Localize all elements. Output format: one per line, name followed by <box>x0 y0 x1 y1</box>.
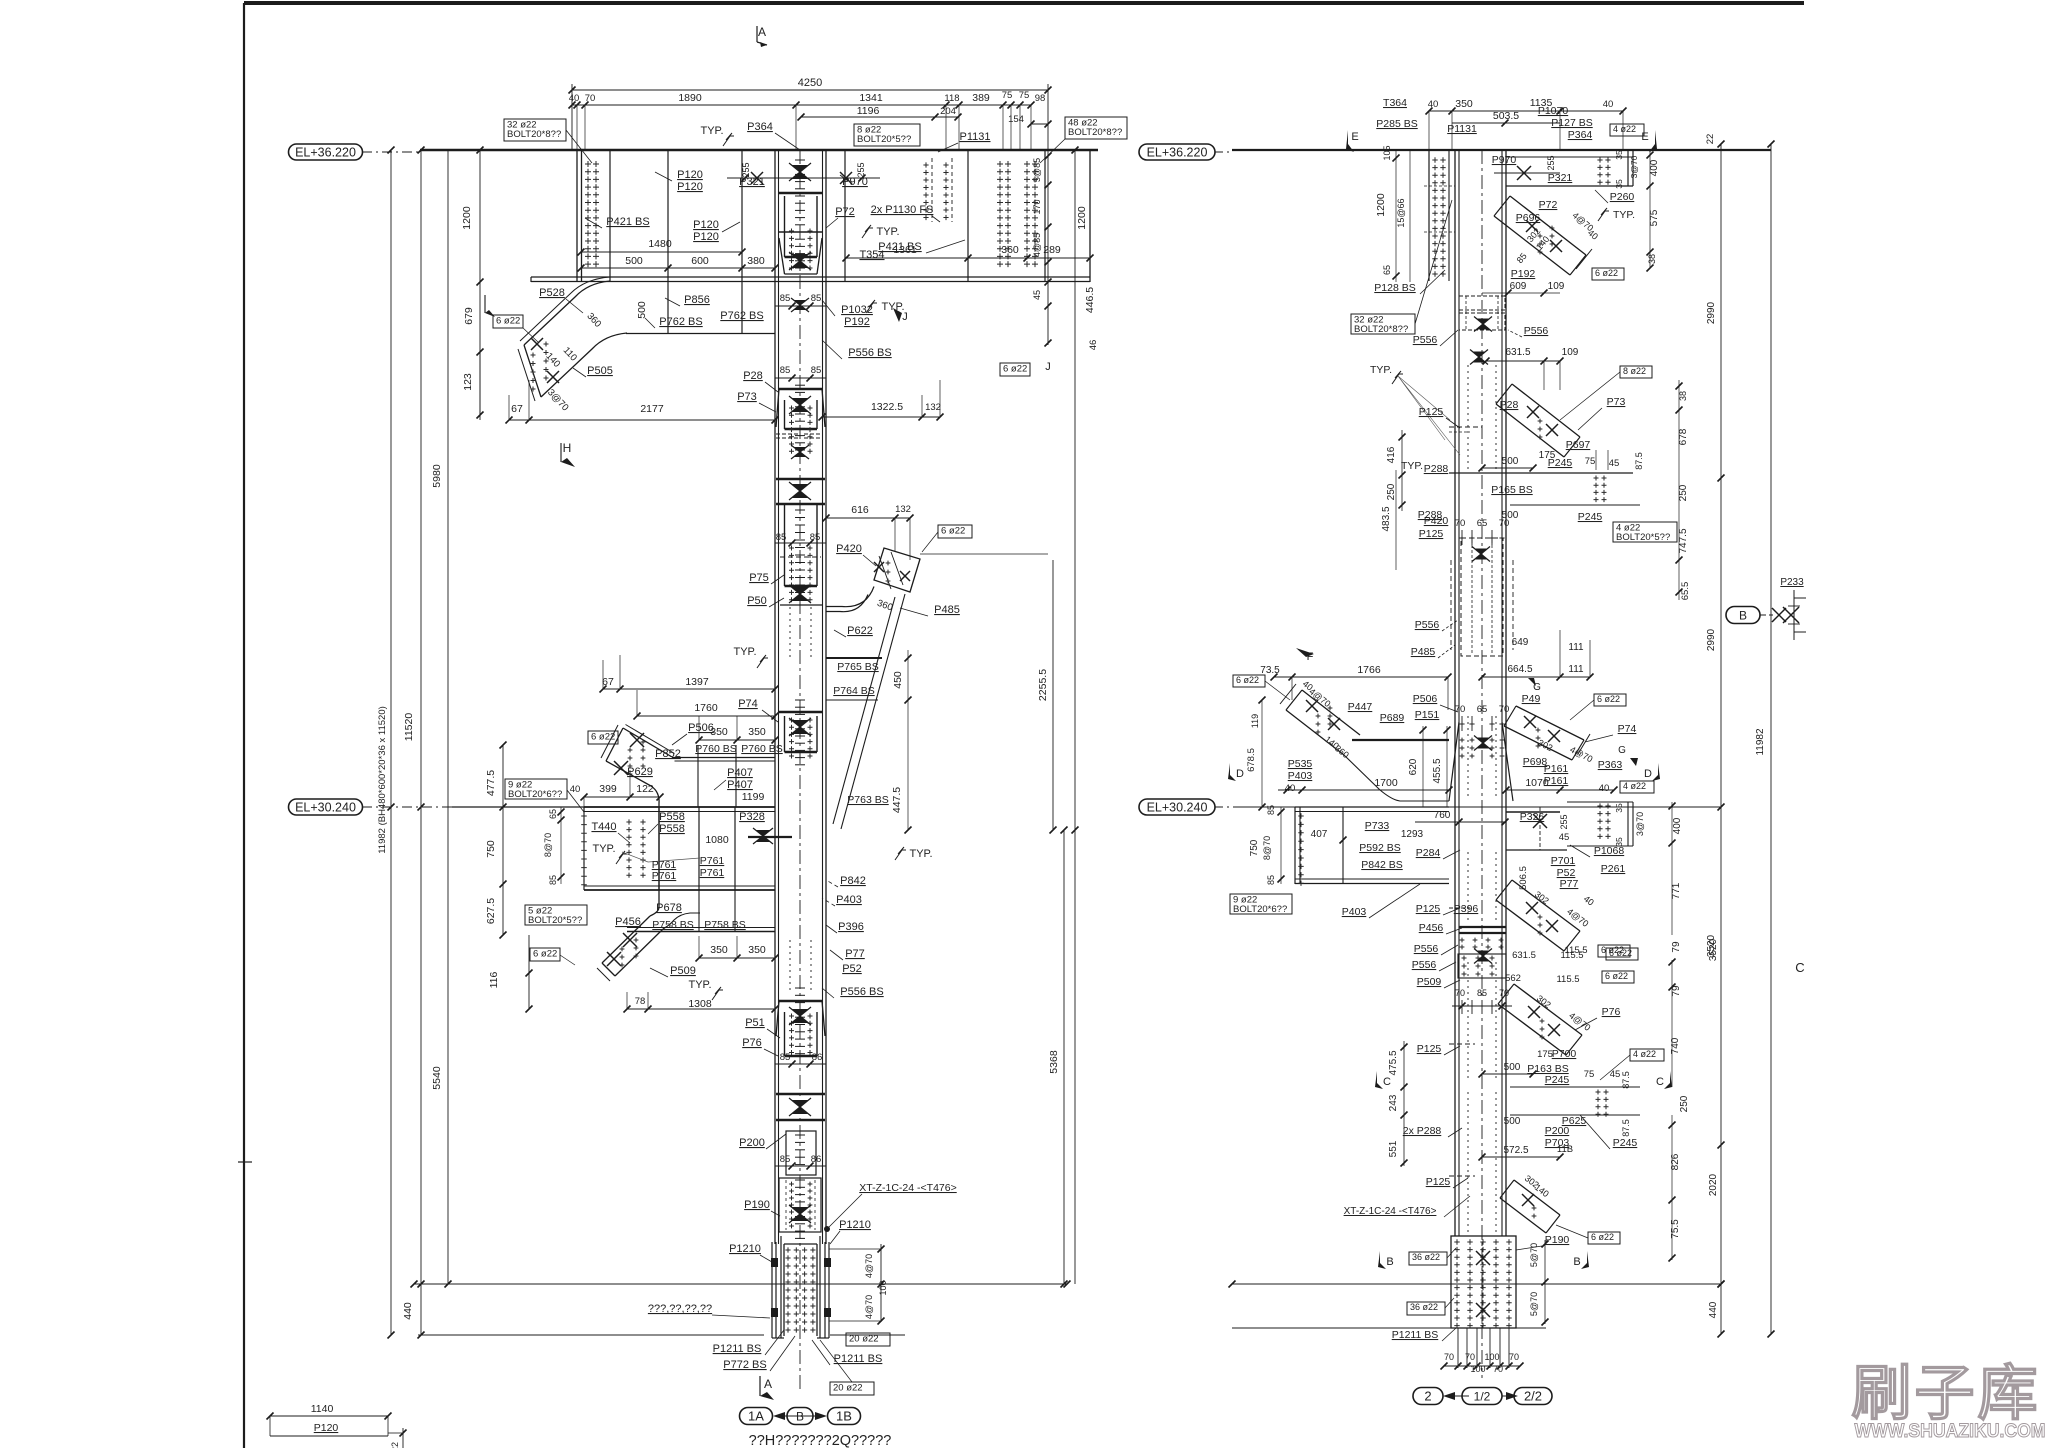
svg-text:440: 440 <box>1708 1301 1719 1318</box>
svg-text:116: 116 <box>488 971 500 988</box>
bolt note 8ø22 <box>854 124 920 146</box>
svg-text:P127 BS: P127 BS <box>1551 117 1592 129</box>
svg-text:BOLT20*8??: BOLT20*8?? <box>1354 324 1408 335</box>
centerline bowtie below bracket P28 <box>794 447 806 457</box>
svg-text:1200: 1200 <box>1375 193 1387 217</box>
svg-text:45: 45 <box>1609 458 1620 469</box>
svg-text:11B: 11B <box>1557 1144 1573 1155</box>
right view: EL+30.240 bubble <box>1139 799 1215 815</box>
svg-text:79: 79 <box>1671 941 1682 953</box>
heavy line brace3 to column <box>1352 739 1449 741</box>
dims 1700 1070 40 40 <box>1302 789 1449 791</box>
svg-text:4@70: 4@70 <box>864 1295 874 1319</box>
svg-text:87.5: 87.5 <box>1621 1071 1631 1089</box>
svg-text:85: 85 <box>811 365 822 376</box>
svg-text:6 ø22: 6 ø22 <box>533 949 557 960</box>
svg-text:P72: P72 <box>835 206 855 218</box>
left view column right flange lines <box>822 150 824 1244</box>
bottom splice black squares <box>771 1258 778 1267</box>
svg-text:TYP.: TYP. <box>876 226 899 238</box>
section mark A top <box>756 26 758 42</box>
svg-text:C: C <box>1656 1076 1664 1088</box>
top beam stiffener x742 <box>741 150 743 282</box>
beam flange lines mid right <box>1449 472 1633 474</box>
svg-text:P151: P151 <box>1415 709 1440 721</box>
bottom left corner details <box>270 1415 388 1417</box>
svg-text:85: 85 <box>1266 805 1276 815</box>
svg-text:P192: P192 <box>1511 268 1536 280</box>
labels 36ø22 x2 <box>1409 1252 1447 1265</box>
svg-text:P161: P161 <box>1544 775 1569 787</box>
svg-text:TYP.: TYP. <box>1613 209 1635 221</box>
svg-text:85: 85 <box>780 365 791 376</box>
svg-text:4 ø22: 4 ø22 <box>1623 781 1646 791</box>
mid brace lower curve to vertical stiffener <box>651 786 659 807</box>
svg-text:747.5: 747.5 <box>1678 528 1689 553</box>
svg-text:P772 BS: P772 BS <box>723 1359 766 1371</box>
svg-text:70: 70 <box>1499 518 1510 529</box>
svg-text:649: 649 <box>1512 637 1529 648</box>
column plate P190 with bolts <box>779 1178 821 1232</box>
svg-text:45: 45 <box>1032 290 1042 300</box>
svg-text:36 ø22: 36 ø22 <box>1410 1302 1438 1312</box>
svg-text:407: 407 <box>1311 829 1328 840</box>
svg-text:P403: P403 <box>1288 770 1313 782</box>
svg-text:6 ø22: 6 ø22 <box>1595 268 1618 278</box>
svg-text:P456: P456 <box>1419 922 1444 934</box>
brace curve into column <box>826 587 874 607</box>
svg-text:1397: 1397 <box>685 676 709 688</box>
top beam stiffener x845 <box>844 150 846 282</box>
svg-text:65: 65 <box>1477 518 1488 529</box>
svg-text:T364: T364 <box>1383 97 1407 109</box>
svg-text:P190: P190 <box>744 1199 770 1211</box>
svg-text:250: 250 <box>1679 1095 1690 1112</box>
left view: left dim chain x503 (477.5/750) <box>502 745 504 935</box>
svg-text:1140: 1140 <box>311 1403 334 1415</box>
column transition funnel <box>1449 722 1459 801</box>
svg-text:TYP.: TYP. <box>909 848 932 860</box>
bolt note 9ø22 <box>505 779 567 799</box>
svg-text:109: 109 <box>1562 347 1579 358</box>
svg-text:BOLT20*8??: BOLT20*8?? <box>1068 127 1122 138</box>
svg-text:??H???????2Q?????: ??H???????2Q????? <box>749 1433 892 1448</box>
svg-text:BOLT20*5??: BOLT20*5?? <box>528 915 582 926</box>
svg-text:5@85: 5@85 <box>1032 158 1042 182</box>
left chain dims 416 250 <box>1401 430 1403 511</box>
svg-text:J: J <box>902 311 908 323</box>
svg-text:1B: 1B <box>836 1409 852 1424</box>
left view right dim chain 5368 <box>1063 830 1065 1284</box>
svg-text:P73: P73 <box>737 391 757 403</box>
svg-text:P161: P161 <box>1544 763 1569 775</box>
svg-text:EL+36.220: EL+36.220 <box>1147 146 1208 160</box>
svg-text:75: 75 <box>1019 90 1030 101</box>
svg-text:P364: P364 <box>747 121 773 133</box>
right view top beam stub <box>1506 156 1633 158</box>
bolt cluster box below <box>1458 954 1506 978</box>
svg-text:T354: T354 <box>859 249 884 261</box>
svg-text:70: 70 <box>1493 1364 1503 1374</box>
svg-text:TYP.: TYP. <box>1370 364 1392 376</box>
top beam stiffener x1045 <box>1044 150 1046 282</box>
svg-text:75: 75 <box>1584 1069 1595 1080</box>
svg-text:D: D <box>1644 768 1652 780</box>
svg-text:562: 562 <box>1505 973 1521 984</box>
right view column centerline <box>1481 150 1483 1378</box>
svg-text:20 ø22: 20 ø22 <box>833 1383 863 1394</box>
svg-text:111: 111 <box>1568 642 1584 653</box>
svg-text:760: 760 <box>1434 810 1451 821</box>
svg-text:2x P1130 FS: 2x P1130 FS <box>871 204 934 216</box>
column bracket P51/P76 <box>779 1000 822 1003</box>
svg-text:503.5: 503.5 <box>1493 110 1519 122</box>
svg-text:P456: P456 <box>615 916 641 928</box>
svg-text:98: 98 <box>1035 93 1046 104</box>
svg-text:22: 22 <box>1705 134 1716 145</box>
svg-text:85: 85 <box>810 532 821 543</box>
mid brace X and bolts <box>630 733 644 747</box>
svg-text:500: 500 <box>1502 456 1519 467</box>
svg-text:100: 100 <box>878 1280 888 1295</box>
svg-text:P592 BS: P592 BS <box>1359 842 1400 854</box>
dim 4250 left view <box>572 89 1048 91</box>
svg-text:38: 38 <box>1678 391 1688 401</box>
left top diagonal brace P528/P505 upper edge with curve <box>524 281 610 345</box>
left column hidden bolt dotted lines <box>789 607 791 660</box>
svg-text:389: 389 <box>972 92 990 104</box>
svg-text:P192: P192 <box>844 316 870 328</box>
mid brace lower edge <box>606 761 651 786</box>
svg-text:TYP.: TYP. <box>688 979 711 991</box>
bolt note 20ø22 x2 <box>846 1333 890 1346</box>
svg-text:P701: P701 <box>1551 855 1576 867</box>
svg-text:400: 400 <box>1649 159 1660 176</box>
svg-text:620: 620 <box>1408 758 1419 775</box>
svg-text:6 ø22: 6 ø22 <box>1236 675 1259 685</box>
svg-text:P165 BS: P165 BS <box>1491 484 1532 496</box>
svg-text:551: 551 <box>1388 1140 1399 1157</box>
svg-text:P1070: P1070 <box>1538 105 1569 117</box>
right brace 7 small <box>1514 1180 1560 1215</box>
svg-text:P556: P556 <box>1524 325 1549 337</box>
svg-text:P260: P260 <box>1610 191 1635 203</box>
svg-text:11982 (BH480*600*20*36 x 11520: 11982 (BH480*600*20*36 x 11520) <box>377 706 388 854</box>
svg-text:85: 85 <box>776 532 787 543</box>
svg-text:70: 70 <box>1465 1352 1475 1362</box>
column bottom splice assembly <box>771 1242 773 1338</box>
dashed web lines right of strip <box>1458 162 1460 276</box>
svg-text:243: 243 <box>1388 1094 1399 1111</box>
svg-text:20 ø22: 20 ø22 <box>849 1334 879 1345</box>
svg-text:399: 399 <box>599 783 617 795</box>
svg-text:P758 BS: P758 BS <box>652 919 693 931</box>
svg-text:1890: 1890 <box>678 92 702 104</box>
left view right ext x1075 <box>1074 150 1076 1284</box>
svg-text:TYP.: TYP. <box>700 125 723 137</box>
left view: EL+30.240 level line <box>452 806 775 808</box>
svg-text:P328: P328 <box>739 811 765 823</box>
svg-text:P245: P245 <box>1548 457 1573 469</box>
svg-text:447.5: 447.5 <box>891 787 903 813</box>
svg-text:1341: 1341 <box>859 92 883 104</box>
right stub at EL <box>1567 801 1633 803</box>
right view top-left bolt strip <box>1428 150 1430 281</box>
svg-text:???,??,??,??: ???,??,??,?? <box>648 1303 712 1315</box>
svg-text:P447: P447 <box>1348 701 1373 713</box>
svg-text:1199: 1199 <box>742 791 765 803</box>
left chain 475.5 243 551 <box>1403 1041 1405 1166</box>
svg-text:40: 40 <box>570 784 581 795</box>
svg-text:P1211 BS: P1211 BS <box>1392 1329 1439 1341</box>
bottom bubbles 1A B 1B <box>740 1408 773 1425</box>
svg-text:TYP.: TYP. <box>881 301 904 313</box>
svg-text:P120: P120 <box>314 1422 339 1434</box>
brace3 labels <box>1233 675 1265 687</box>
svg-text:46: 46 <box>1088 340 1099 351</box>
svg-text:P528: P528 <box>539 287 565 299</box>
svg-text:P321: P321 <box>1548 172 1573 184</box>
svg-text:P363: P363 <box>1598 759 1623 771</box>
svg-text:4@85: 4@85 <box>1032 233 1042 257</box>
svg-text:1196: 1196 <box>857 105 880 117</box>
brace bolts and X marks <box>531 338 543 350</box>
svg-text:P245: P245 <box>1613 1137 1638 1149</box>
svg-text:P74: P74 <box>738 698 758 710</box>
svg-text:P288: P288 <box>1424 463 1449 475</box>
svg-text:P200: P200 <box>739 1137 765 1149</box>
svg-text:500: 500 <box>636 301 648 319</box>
svg-text:P125: P125 <box>1419 406 1444 418</box>
left view: left dim chain x529 lower <box>528 935 530 1009</box>
right brace 5 below EL <box>1512 880 1580 931</box>
svg-text:A: A <box>764 1377 772 1391</box>
mid beam inner bolts <box>626 819 631 824</box>
svg-text:P120: P120 <box>693 219 719 231</box>
svg-text:170: 170 <box>1032 199 1042 214</box>
svg-text:87.5: 87.5 <box>1634 452 1644 470</box>
svg-text:P760 BS: P760 BS <box>741 743 782 755</box>
svg-text:P77: P77 <box>1560 878 1579 890</box>
svg-text:P125: P125 <box>1419 528 1444 540</box>
mid beam panel above EL (P760) <box>697 745 699 807</box>
svg-text:P558: P558 <box>659 811 685 823</box>
svg-text:35: 35 <box>1614 150 1624 160</box>
svg-text:P1210: P1210 <box>729 1243 761 1255</box>
svg-text:P505: P505 <box>587 365 613 377</box>
svg-text:65: 65 <box>1477 704 1488 715</box>
svg-text:WWW.SHUAZIKU.COM: WWW.SHUAZIKU.COM <box>1855 1421 2046 1442</box>
svg-text:G: G <box>1618 745 1626 756</box>
svg-text:P1131: P1131 <box>960 131 991 143</box>
svg-text:255: 255 <box>1546 155 1556 170</box>
svg-text:P75: P75 <box>749 572 769 584</box>
svg-text:6 ø22: 6 ø22 <box>1597 694 1620 704</box>
svg-text:P485: P485 <box>1411 646 1436 658</box>
steep diagonal brace P420/P485 end plate <box>874 548 920 592</box>
svg-text:P842 BS: P842 BS <box>1361 859 1402 871</box>
right view: EL+36.220 line <box>1232 149 1771 151</box>
svg-text:1480: 1480 <box>648 238 672 250</box>
right column hidden bolt dotted lines <box>1467 365 1469 470</box>
svg-text:P403: P403 <box>836 894 862 906</box>
svg-text:40: 40 <box>1285 783 1296 794</box>
svg-text:255: 255 <box>741 162 751 177</box>
svg-text:678: 678 <box>1678 428 1689 445</box>
right brace 2 down-right <box>1512 384 1580 437</box>
svg-text:P506: P506 <box>688 722 714 734</box>
right EL beam left stub <box>1295 806 1449 808</box>
mid brace P852/P506 upper edge <box>623 728 672 757</box>
svg-text:5368: 5368 <box>1048 1050 1060 1074</box>
dim line y1009 <box>627 1008 775 1010</box>
svg-text:P761: P761 <box>652 870 677 882</box>
bottom frame line y1284 <box>414 1283 1067 1285</box>
svg-text:P51: P51 <box>745 1017 765 1029</box>
svg-text:35: 35 <box>1614 803 1624 813</box>
svg-text:350: 350 <box>748 726 766 738</box>
svg-text:2/2: 2/2 <box>1524 1389 1542 1404</box>
svg-text:BOLT20*6??: BOLT20*6?? <box>1233 904 1287 915</box>
svg-text:45: 45 <box>1559 832 1570 843</box>
svg-text:255: 255 <box>1559 814 1569 829</box>
svg-text:750: 750 <box>485 840 497 858</box>
svg-text:40: 40 <box>1603 99 1614 110</box>
brace P420 steep lines to EL joint <box>841 594 905 829</box>
svg-text:P76: P76 <box>742 1037 762 1049</box>
svg-text:P558: P558 <box>659 823 685 835</box>
column joint at EL right view <box>1506 811 1560 813</box>
svg-text:11520: 11520 <box>403 713 415 742</box>
svg-text:40: 40 <box>1599 783 1610 794</box>
svg-text:B: B <box>1386 1256 1393 1268</box>
svg-text:1308: 1308 <box>688 998 712 1010</box>
svg-text:P245: P245 <box>1545 1074 1570 1086</box>
svg-text:E: E <box>1641 131 1648 143</box>
svg-text:P856: P856 <box>684 294 710 306</box>
svg-text:6 ø22: 6 ø22 <box>591 732 615 743</box>
svg-text:100: 100 <box>1484 1352 1499 1362</box>
svg-text:11982: 11982 <box>1755 728 1766 756</box>
bolt note 32ø22 <box>504 119 566 141</box>
svg-text:111: 111 <box>1568 664 1584 675</box>
svg-text:P765 BS: P765 BS <box>837 661 878 673</box>
svg-text:446.5: 446.5 <box>1084 287 1096 313</box>
left view: EL+30.240 level bubble <box>289 799 363 815</box>
svg-text:P758 BS: P758 BS <box>704 919 745 931</box>
svg-text:289: 289 <box>1043 244 1061 256</box>
right view top dim row <box>1429 110 1623 112</box>
right brace 4 at EL <box>1516 706 1584 740</box>
svg-text:6 ø22: 6 ø22 <box>1605 971 1628 981</box>
svg-text:105: 105 <box>1382 145 1392 160</box>
svg-text:P74: P74 <box>1618 723 1637 735</box>
left view: EL+36.220 level bubble <box>289 144 363 160</box>
svg-text:P762 BS: P762 BS <box>720 310 763 322</box>
svg-text:5@70: 5@70 <box>1529 1243 1539 1267</box>
svg-text:2020: 2020 <box>1708 1173 1719 1196</box>
svg-text:122: 122 <box>636 783 654 795</box>
svg-text:78: 78 <box>635 996 646 1007</box>
svg-text:P764 BS: P764 BS <box>833 685 874 697</box>
far right overall 11982 <box>1770 144 1772 1334</box>
svg-text:22: 22 <box>390 1442 400 1448</box>
left view column left flange lines <box>774 150 776 1244</box>
dim 1766 73.5 664.5 111 <box>1292 676 1448 678</box>
B bubble right side <box>1726 607 1760 624</box>
bottom bolt tails <box>1457 1328 1459 1368</box>
svg-text:P535: P535 <box>1288 758 1313 770</box>
svg-text:1760: 1760 <box>694 702 718 714</box>
svg-text:3520: 3520 <box>1706 934 1717 957</box>
svg-text:J: J <box>1045 361 1051 373</box>
svg-text:BOLT20*5??: BOLT20*5?? <box>1616 532 1670 543</box>
label 6ø22 mid brace <box>588 731 618 744</box>
svg-text:P970: P970 <box>1492 154 1517 166</box>
svg-text:100: 100 <box>1470 1364 1485 1374</box>
dense bolt rows on column <box>1459 926 1506 928</box>
svg-text:450: 450 <box>892 671 904 689</box>
dim row 1196/204 <box>801 116 935 118</box>
svg-text:2990: 2990 <box>1706 301 1717 324</box>
svg-text:6 ø22: 6 ø22 <box>1591 1232 1614 1242</box>
svg-text:40: 40 <box>1428 99 1439 110</box>
svg-text:P125: P125 <box>1416 903 1441 915</box>
svg-text:5@70: 5@70 <box>1529 1292 1539 1316</box>
top beam dashed bolt lines 2x P1130 <box>931 158 933 222</box>
svg-text:4 ø22: 4 ø22 <box>1613 124 1636 134</box>
svg-text:8@70: 8@70 <box>1262 836 1272 860</box>
svg-text:EL+36.220: EL+36.220 <box>295 146 356 160</box>
svg-text:380: 380 <box>747 255 765 267</box>
svg-text:40: 40 <box>569 93 580 104</box>
column X-box panel 1 <box>776 478 825 480</box>
svg-text:500: 500 <box>625 255 643 267</box>
svg-text:3@70: 3@70 <box>1629 155 1639 178</box>
svg-text:P506: P506 <box>1413 693 1438 705</box>
svg-text:P763 BS: P763 BS <box>847 794 888 806</box>
brace P505 lower edge with curve <box>541 333 627 397</box>
svg-text:250: 250 <box>1678 484 1689 501</box>
svg-text:P762 BS: P762 BS <box>659 316 702 328</box>
top beam stiffener x668 <box>667 150 669 282</box>
svg-text:C: C <box>1383 1076 1391 1088</box>
svg-text:P420: P420 <box>1424 515 1449 527</box>
bolt note 4ø22 BOLT20 far right <box>1613 522 1677 542</box>
svg-text:75: 75 <box>1585 456 1596 467</box>
svg-text:P678: P678 <box>656 902 682 914</box>
watermark brush logo <box>1852 1360 2046 1442</box>
plate P764 line <box>826 699 878 701</box>
right brace 6 <box>1514 984 1582 1035</box>
svg-text:P50: P50 <box>747 595 767 607</box>
section mark A bottom <box>759 1376 761 1396</box>
svg-text:4 ø22: 4 ø22 <box>1633 1049 1656 1059</box>
splice dashes below bracket <box>776 433 798 435</box>
right view bottom plate <box>1451 1236 1516 1328</box>
secondary beam below top beam <box>626 333 775 335</box>
svg-text:85: 85 <box>1266 875 1276 885</box>
svg-text:123: 123 <box>462 373 474 391</box>
svg-text:P261: P261 <box>1601 863 1626 875</box>
svg-text:P52: P52 <box>842 963 862 975</box>
svg-text:D: D <box>1236 768 1244 780</box>
mid brace end cap <box>606 728 623 761</box>
svg-text:P233: P233 <box>1780 577 1804 588</box>
svg-text:C: C <box>1795 960 1804 975</box>
label 6ø22 lower brace <box>530 948 560 961</box>
svg-text:P245: P245 <box>1578 511 1603 523</box>
